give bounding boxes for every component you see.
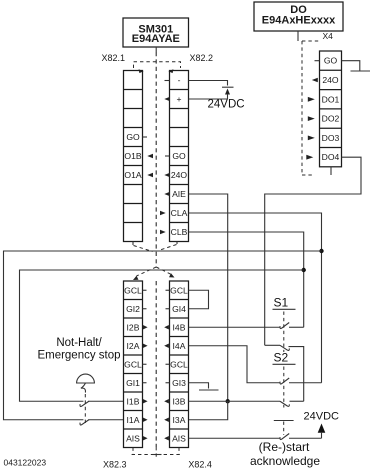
pin DO3 arrow [308,136,315,141]
svg-text:043122023: 043122023 [4,458,47,468]
svg-text:DO2: DO2 [322,114,340,124]
svg-text:GI3: GI3 [172,378,186,388]
svg-text:I2A: I2A [127,341,140,351]
svg-text:S1: S1 [274,296,289,310]
column X4 stub [330,167,332,175]
wire CLA loop long (left outer) [4,251,322,420]
svg-text:Not-Halt/: Not-Halt/ [56,337,102,349]
pin I1B arrow [143,399,148,404]
pin DO4 arrow [306,155,313,160]
pin GO X82.2 tick [165,155,170,157]
pin GO X82.1 tick [143,136,148,138]
wire GCL to GI4 loop [189,290,209,309]
svg-text:O1A: O1A [124,170,141,180]
node CLA wire junction [319,249,323,253]
X82.3 pin ticks [143,290,147,383]
emergency stop contact 2 blade [80,420,124,426]
terminal column X82.3 [124,281,143,448]
wire I4A down chain [189,346,281,383]
pin AIE arrow [164,192,170,197]
svg-text:X4: X4 [323,31,334,41]
wire junction down to I3A [189,401,228,420]
svg-text:GO: GO [126,132,140,142]
pin DO2 arrow [308,116,315,121]
S2 contact 2 (lower) [189,401,304,406]
svg-text:I4A: I4A [173,341,186,351]
dashed bracket above X82.1/X82.2 [134,62,181,73]
S1 linkage dashed [283,312,285,353]
svg-text:DO4: DO4 [322,152,340,162]
S1 contact 1 blade [280,323,304,329]
svg-text:S2: S2 [274,351,289,365]
module box SM301 E94AYAE [123,18,189,47]
GI3 termination bar [199,389,219,391]
dashed bracket X4 column [302,41,321,175]
svg-text:GO: GO [324,56,338,66]
svg-text:I3B: I3B [173,397,186,407]
svg-text:GI2: GI2 [126,304,140,314]
label Not-Halt / Emergency stop [37,337,120,362]
svg-text:acknowledge: acknowledge [250,454,320,468]
svg-text:GCL: GCL [170,286,188,296]
wire AIS to restart [189,437,281,439]
24VDC supply arrow [225,89,230,100]
wire GI3 termination [189,383,209,389]
svg-text:AIS: AIS [172,434,186,444]
pin AIS X82.3 arrow [143,436,148,441]
svg-text:GCL: GCL [124,286,142,296]
pin GO X4 tick [315,60,320,62]
wire AIE to vertical [189,194,228,401]
restart contact blade [280,434,322,440]
pin I1A arrow [143,418,148,423]
wire CLB loop (left inner) [20,270,304,401]
wire I4B to S1 [189,326,281,328]
wire minus terminal to 24VDC bar [189,81,228,86]
svg-text:24O: 24O [322,75,339,85]
svg-text:DO1: DO1 [322,94,340,104]
terminal column X4 [320,51,342,167]
svg-text:24O: 24O [171,170,188,180]
svg-text:-: - [178,75,181,85]
svg-text:X82.1: X82.1 [102,53,126,63]
wire plus terminal to 24VDC [189,98,228,100]
terminal column X82.2 [170,71,189,242]
pin 24O arrow [164,173,170,178]
svg-text:+: + [176,94,181,104]
svg-text:AIE: AIE [172,189,186,199]
dashed split above X82.3/X82.4 [133,267,175,280]
restart button cap [274,421,294,436]
svg-text:I1B: I1B [127,397,140,407]
svg-text:GCL: GCL [124,360,142,370]
pin CLB arrow [160,230,166,235]
wire CLB to vertical [189,232,304,327]
svg-text:(Re-)start: (Re-)start [259,440,310,454]
svg-text:DO3: DO3 [322,133,340,143]
svg-text:E94AYAE: E94AYAE [132,33,180,45]
svg-text:GCL: GCL [170,360,188,370]
emergency stop mushroom head [77,374,95,393]
node CLB wire junction [302,268,306,272]
DO box stub [297,31,299,41]
pin I3B arrow [164,399,169,404]
label S1 [273,296,296,310]
svg-text:Emergency stop: Emergency stop [37,349,120,361]
pin CLA arrow [160,211,166,216]
pin I3A arrow [164,418,169,423]
S2 linkage dashed [283,367,285,408]
svg-text:X82.4: X82.4 [188,460,212,470]
module box DO E94AxHExxxx [254,2,343,31]
label (Re-)start acknowledge [250,440,320,468]
pin AIS X82.4 arrow [164,436,169,441]
svg-text:I3A: I3A [173,415,186,425]
center dashed line bottom section [155,281,157,447]
svg-text:O1B: O1B [124,151,141,161]
pin O1B arrow [147,154,153,159]
svg-text:I4B: I4B [173,323,186,333]
pin I4B arrow [164,325,169,330]
pin 24O X4 arrow [312,78,318,83]
pin DO1 arrow [308,97,315,102]
pin O1A arrow [147,173,153,178]
svg-text:X82.2: X82.2 [190,53,214,63]
dashed bracket below X82.3/X82.4 [132,447,183,459]
node AIE/I3B junction [226,399,230,403]
svg-text:CLA: CLA [171,208,188,218]
center dashed line from SM301 [155,47,157,267]
wire DO4 to S1 chain [265,157,361,345]
svg-text:AIS: AIS [126,434,140,444]
svg-text:GI4: GI4 [172,304,186,314]
svg-text:E94AxHExxxx: E94AxHExxxx [262,15,336,27]
terminal column X82.1 [124,71,143,242]
pin I2B arrow [143,325,148,330]
svg-text:GI1: GI1 [126,378,140,388]
S2 contact 1 blade [280,378,322,384]
S1 contact 2 (lower) [265,345,304,401]
pin - tick [165,80,170,82]
pin I2A arrow [143,344,148,349]
emergency stop linkage dashed [84,394,86,426]
svg-text:GO: GO [172,151,186,161]
svg-text:I1A: I1A [127,415,140,425]
svg-text:24VDC: 24VDC [208,99,245,111]
emergency stop contact 1 blade [80,401,124,407]
24VDC supply bar [222,86,234,88]
label S2 [273,351,296,365]
svg-text:X82.3: X82.3 [103,460,127,470]
wire CLA to vertical [189,213,322,383]
svg-text:I2B: I2B [127,323,140,333]
X82.4 pin ticks [166,290,170,383]
rail exiting right [351,70,370,72]
svg-text:CLB: CLB [171,227,188,237]
svg-text:24VDC: 24VDC [304,411,340,423]
24VDC bottom arrow [318,424,326,439]
pin + arrow [164,97,170,102]
wire GO X4 rail [342,61,360,71]
terminal column X82.4 [170,281,189,448]
pin I4A arrow [164,344,169,349]
dashed funnel below X82.1/X82.2 [133,242,177,252]
